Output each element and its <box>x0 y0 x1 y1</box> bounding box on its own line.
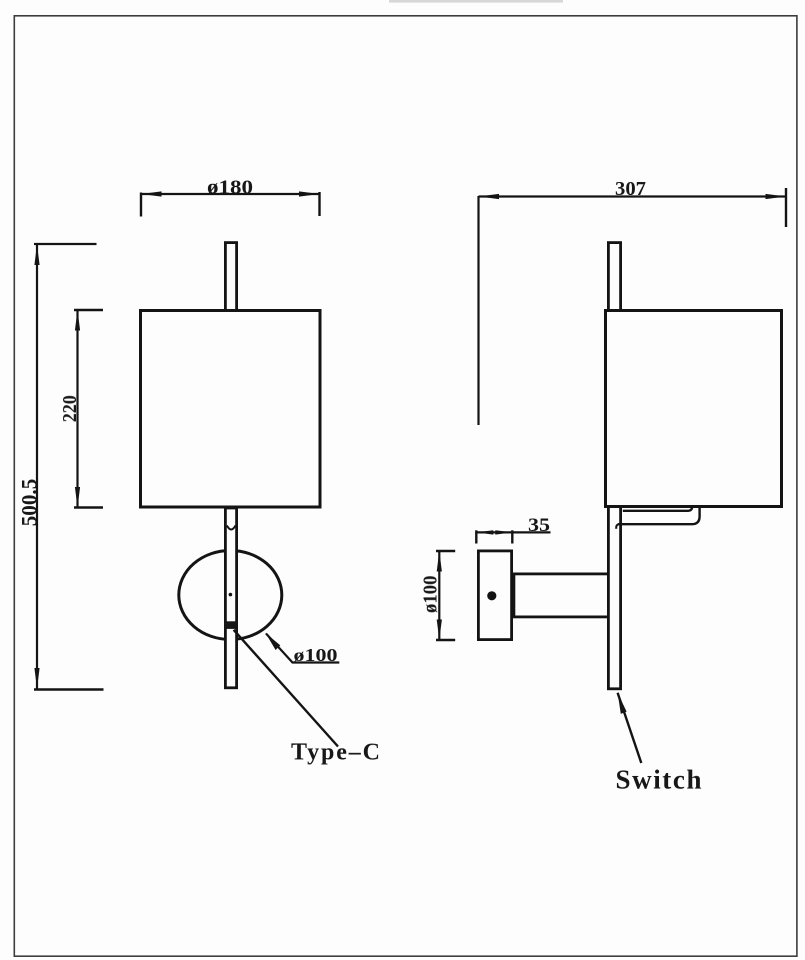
Type-C port (black) <box>224 621 237 629</box>
svg-text:500.5: 500.5 <box>17 479 42 527</box>
stem above shade (front) <box>225 243 236 311</box>
cropped text remnant top <box>389 0 563 3</box>
shade support tube bottom line <box>618 506 700 525</box>
leader Switch line <box>618 693 642 763</box>
tube left end curl <box>616 524 618 529</box>
leader Type-C <box>234 630 338 747</box>
svg-text:220: 220 <box>59 395 81 422</box>
dim ø180 left arrow <box>141 191 162 196</box>
shade support tube top line <box>623 506 693 511</box>
dim ø100 side up arrow <box>437 551 442 572</box>
svg-text:Type–C: Type–C <box>291 739 380 765</box>
wall canopy circle <box>179 551 282 640</box>
wall plate (side) <box>478 551 511 640</box>
mounting arm (side) <box>514 574 610 617</box>
stem below shade (front) <box>225 508 236 688</box>
dim ø100 side line <box>438 551 440 640</box>
dim 35 left tick <box>475 530 477 543</box>
leader ø100 line <box>266 634 339 663</box>
lamp shade (side) <box>606 311 782 507</box>
dim 500.5 down arrow <box>34 668 39 689</box>
stem joint arc <box>227 526 236 530</box>
dim 500.5 line <box>36 245 38 689</box>
svg-text:35: 35 <box>528 515 550 536</box>
dim 500.5 top extension <box>34 243 97 245</box>
dim 220 top tick <box>74 309 103 311</box>
dim 307 left extension (wall line) <box>477 196 479 425</box>
svg-text:ø180: ø180 <box>207 176 253 198</box>
svg-text:307: 307 <box>615 178 646 200</box>
dim ø100 side top tick <box>436 550 455 552</box>
dim ø100 side down arrow <box>437 620 442 641</box>
dim ø180 right tick <box>318 192 320 216</box>
dim 35 left arrow <box>476 530 493 534</box>
dim 307 line <box>479 195 787 197</box>
dim ø180 left tick <box>140 193 142 217</box>
svg-text:ø100: ø100 <box>420 576 442 614</box>
dim 307 right tick <box>785 188 787 227</box>
dim 220 down arrow <box>75 487 80 508</box>
lamp shade (front) <box>141 311 321 508</box>
dim 220 bottom tick <box>74 506 103 508</box>
dim 35 right arrow <box>495 530 512 534</box>
dim 307 left arrow <box>479 194 500 199</box>
dim 220 up arrow <box>75 310 80 331</box>
dim 500.5 bottom extension <box>34 688 104 690</box>
dim ø180 right arrow <box>299 191 320 196</box>
plate screw dot <box>487 591 496 600</box>
dim 500.5 up arrow <box>34 245 39 266</box>
dim 220 line <box>76 310 78 508</box>
leader Switch arrowhead <box>618 693 627 714</box>
dim 307 right arrow <box>766 194 787 199</box>
canopy center dot <box>229 593 233 597</box>
dim 35 right tick <box>511 530 513 543</box>
dim 35 line with shelf <box>476 531 550 533</box>
leader ø100 arrowhead <box>266 633 281 650</box>
svg-text:ø100: ø100 <box>293 645 337 665</box>
svg-text:Switch: Switch <box>615 764 701 794</box>
dim ø180 line <box>141 193 320 195</box>
dim ø100 side bottom tick <box>436 639 455 641</box>
vertical pole (side) <box>608 243 620 689</box>
